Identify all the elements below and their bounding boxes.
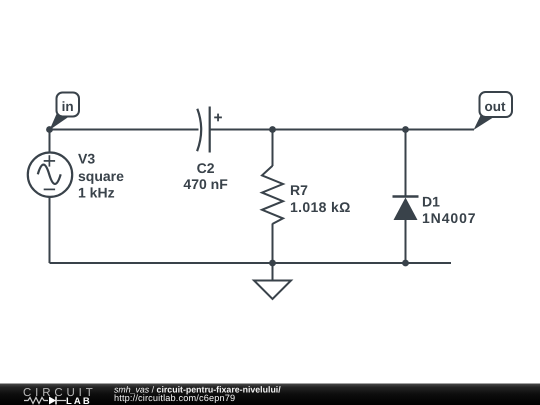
svg-text:V3: V3 — [78, 150, 95, 166]
svg-text:C2: C2 — [197, 160, 215, 176]
label R7 value — [290, 182, 351, 215]
svg-text:1 kHz: 1 kHz — [78, 184, 115, 200]
label V3 value — [78, 150, 124, 200]
svg-text:in: in — [62, 99, 74, 114]
capacitor C2 (polarized) — [197, 107, 222, 153]
diode D1 — [393, 197, 419, 221]
wire net-out diode node to out flag — [406, 129, 475, 131]
node at C2/R7 junction — [269, 126, 276, 133]
wire net-in top horizontal from node to capacitor — [50, 129, 199, 131]
node at R7 bottom / ground — [269, 260, 276, 267]
svg-text:http://circuitlab.com/c6epn79: http://circuitlab.com/c6epn79 — [114, 393, 235, 403]
wire net-out resistor node to diode node — [273, 129, 406, 131]
wire net-mid capacitor to resistor node — [210, 129, 272, 131]
wire diode D1 bottom lead — [405, 220, 407, 264]
wire from in node down to V3 top — [49, 130, 51, 154]
resistor R7 — [262, 166, 283, 224]
svg-text:D1: D1 — [422, 193, 440, 209]
node in at V3 top — [46, 126, 53, 133]
wire from V3 bottom down to ground rail — [49, 198, 51, 264]
svg-text:R7: R7 — [290, 182, 308, 198]
junction dots — [46, 126, 409, 266]
flag in — [50, 93, 80, 131]
footer bar — [0, 384, 540, 405]
wire ground rail bottom horizontal — [50, 262, 452, 264]
wire resistor R7 top lead — [272, 130, 274, 167]
wire diode D1 top lead — [405, 130, 407, 197]
flag out — [474, 92, 513, 130]
svg-text:1.018 kΩ: 1.018 kΩ — [290, 199, 351, 215]
node at D1 top junction — [402, 126, 409, 133]
wire ground stub — [272, 263, 274, 281]
footer title text — [114, 384, 281, 403]
voltage source V3 — [28, 153, 72, 197]
ground — [254, 281, 291, 300]
svg-text:470 nF: 470 nF — [183, 176, 228, 192]
svg-text:square: square — [78, 168, 124, 184]
svg-text:out: out — [485, 99, 506, 114]
label D1 value — [422, 193, 476, 226]
svg-text:LAB: LAB — [66, 396, 92, 405]
node at D1 bottom — [402, 260, 409, 267]
label C2 value — [183, 160, 228, 192]
wire resistor R7 bottom lead — [272, 224, 274, 264]
svg-text:1N4007: 1N4007 — [422, 210, 476, 226]
CircuitLab logo — [23, 387, 97, 405]
